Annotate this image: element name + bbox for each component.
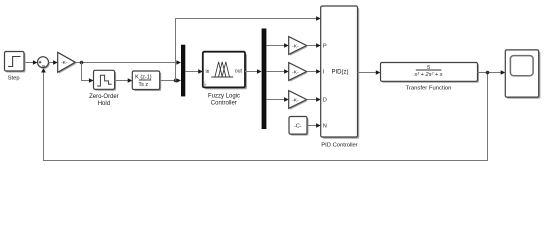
wire: PID Controller to Transfer Function: [358, 70, 381, 75]
wire: Mux to Fuzzy Logic Controller: [185, 69, 203, 74]
svg-text:Fuzzy Logic: Fuzzy Logic: [208, 94, 240, 100]
label: Fuzzy Logic Controller: [208, 94, 240, 107]
wire: Zero-Order Hold to Discrete Derivative: [115, 78, 133, 83]
block: Gain P -K-: [289, 37, 308, 56]
label: Zero-Order Hold: [89, 94, 119, 107]
wire: Gain to Mux (main error row): [75, 60, 181, 65]
wire: branch up to PID u input: [176, 16, 321, 80]
block: PID Controller PID(z): [321, 6, 359, 139]
block: Fuzzy Logic Controller: [203, 52, 247, 90]
svg-text:I: I: [323, 70, 325, 76]
svg-text:Zero-Order: Zero-Order: [89, 94, 119, 100]
svg-text:N: N: [323, 124, 327, 130]
wire: Constant to PID port N: [307, 123, 321, 128]
block: Discrete Derivative K(z-1)/Ts z: [132, 71, 161, 91]
mux: 2-to-1 vertical bar: [181, 45, 185, 97]
block: Constant -C-: [289, 117, 309, 136]
svg-text:in: in: [206, 69, 210, 75]
svg-text:P: P: [323, 44, 327, 50]
label: Step: [8, 75, 20, 81]
wire: Gain I to PID port I: [307, 69, 321, 74]
block: Transfer Function 5/(s^3+2s^2+s): [381, 63, 480, 83]
block: Gain I -K-: [289, 63, 308, 82]
svg-text:Controller: Controller: [211, 101, 237, 107]
label: PID Controller: [321, 142, 357, 148]
demux: 1-to-3 vertical bar: [262, 29, 267, 130]
wire: Step to Sum: [24, 60, 38, 65]
svg-text:D: D: [323, 98, 327, 104]
block: Gain -K-: [58, 52, 77, 73]
junction: error branch dot: [80, 61, 84, 65]
wire: Discrete Derivative to Mux lower input: [160, 78, 181, 83]
wire: Demux to Gain P: [266, 43, 288, 48]
svg-text:Step: Step: [8, 75, 20, 81]
wire: feedback loop from output junction around bottom to sum: [41, 68, 487, 161]
svg-text:Hold: Hold: [98, 101, 110, 107]
block: Zero-Order Hold: [94, 70, 117, 91]
svg-text:-K-: -K-: [292, 97, 299, 103]
wire: Demux to Gain I: [266, 69, 288, 74]
wire: Transfer Function to Scope: [478, 70, 506, 75]
svg-text:Transfer Function: Transfer Function: [406, 86, 452, 92]
svg-text:-K-: -K-: [292, 69, 299, 75]
wire: Gain P to PID port P: [307, 43, 321, 48]
junction: derivative branch dot: [174, 79, 178, 83]
svg-text:Ts z: Ts z: [138, 82, 148, 88]
block: Step source: [5, 52, 26, 73]
block: Scope: [505, 50, 540, 99]
wire: Fuzzy Logic Controller to Demux: [245, 69, 262, 74]
block: Gain D -K-: [289, 91, 308, 110]
svg-text:PID(z): PID(z): [332, 70, 349, 76]
svg-text:-C-: -C-: [294, 123, 302, 129]
wire: branch down to Zero-Order Hold: [82, 63, 94, 83]
svg-text:out: out: [235, 69, 243, 75]
block: Sum (circle with + and -): [38, 57, 50, 69]
svg-text:PID Controller: PID Controller: [321, 142, 357, 148]
svg-text:-K-: -K-: [61, 60, 68, 66]
junction: output feedback dot: [486, 71, 490, 75]
wire: Demux to Gain D: [266, 97, 288, 102]
wire: Sum to Gain: [49, 60, 58, 65]
label: Transfer Function: [406, 86, 452, 92]
svg-text:-K-: -K-: [292, 43, 299, 49]
wire: Gain D to PID port D: [307, 97, 321, 102]
svg-text:s3 + 2s2 + s: s3 + 2s2 + s: [414, 71, 442, 78]
